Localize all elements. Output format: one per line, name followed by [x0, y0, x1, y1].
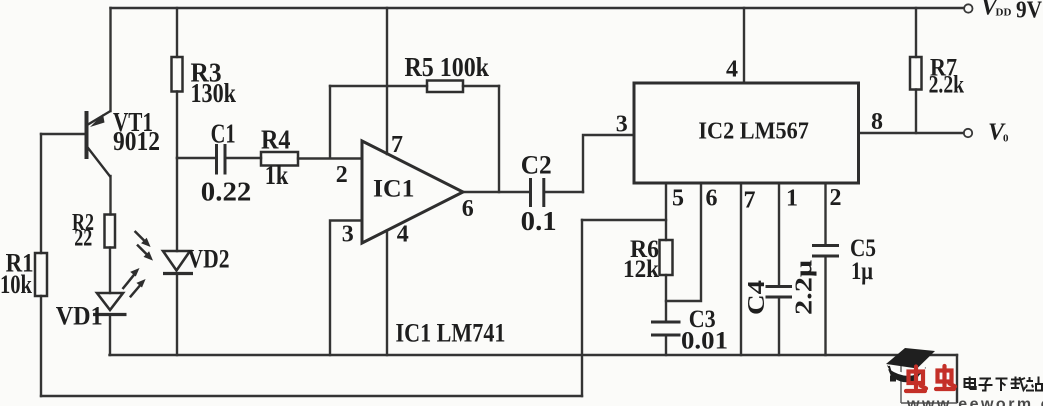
- svg-text:IC1 LM741: IC1 LM741: [396, 319, 506, 348]
- IC2 LM567 box: [634, 83, 859, 183]
- svg-text:4: 4: [726, 57, 738, 83]
- wire: IC1 pin4 to ground rail: [386, 231, 388, 356]
- wire: C3 bottom to ground rail: [665, 335, 667, 355]
- wire: left riser down to outer return rail: [581, 220, 583, 396]
- wire: IC1 pin7 supply drop: [386, 8, 388, 154]
- svg-text:22: 22: [74, 226, 92, 252]
- resistor R2: [105, 215, 116, 248]
- wire: VD1 cathode to ground rail: [109, 315, 111, 356]
- svg-text:R4: R4: [261, 125, 291, 155]
- resistor R6: [660, 240, 673, 275]
- terminal circle V0: [964, 129, 972, 137]
- svg-text:1k: 1k: [265, 160, 289, 190]
- wire: IC2 pin7 to ground rail: [740, 183, 742, 355]
- svg-text:R5 100k: R5 100k: [405, 52, 490, 82]
- transistor VT1: [87, 111, 111, 177]
- svg-text:0.22: 0.22: [201, 177, 252, 207]
- svg-text:3: 3: [342, 222, 354, 248]
- wire: node to VD2 anode: [176, 158, 178, 251]
- svg-text:130k: 130k: [191, 78, 237, 108]
- watermark red chong-chong characters: [906, 366, 955, 391]
- wire: R4 to IC1 pin2: [298, 157, 362, 159]
- wire: R6 bottom to C3: [665, 275, 667, 322]
- wire: R3 bottom to C1/VD2 node: [176, 92, 178, 159]
- svg-text:0.1: 0.1: [521, 206, 557, 236]
- VD2 incoming light arrows: [135, 231, 153, 261]
- svg-text:7: 7: [744, 188, 756, 214]
- svg-text:2.2k: 2.2k: [929, 72, 965, 99]
- wire: C4 bottom to ground rail: [778, 297, 780, 355]
- wire: IC2 pin1 stub to C4: [778, 183, 780, 287]
- resistor R3: [172, 57, 183, 92]
- svg-text:12k: 12k: [623, 256, 659, 283]
- node V0 label: [988, 120, 1009, 146]
- svg-text:C4: C4: [744, 280, 770, 315]
- svg-text:8: 8: [871, 109, 883, 135]
- wire: outer bottom return rail: [41, 395, 582, 397]
- wire: C1 right plate to R4: [227, 157, 262, 159]
- watermark logo box: [901, 358, 957, 403]
- wire: R5 left vertical to pin2 node: [329, 86, 331, 158]
- svg-text:6: 6: [462, 196, 474, 222]
- svg-text:DD: DD: [996, 7, 1012, 19]
- wire: R5 right horizontal: [463, 85, 499, 87]
- wire: top VDD rail: [111, 7, 964, 9]
- svg-text:C2: C2: [521, 151, 552, 180]
- wire: IC2 pin6 stub down and left to R6/C3 node: [666, 183, 701, 301]
- VD1 emission arrows: [123, 268, 146, 297]
- wire: left drop from rail to VT1 emitter: [109, 8, 111, 111]
- svg-text:VD1: VD1: [56, 302, 103, 331]
- wire: IC2 pin2 stub to C5: [824, 183, 826, 246]
- svg-text:6: 6: [706, 186, 718, 212]
- wire: R7 top from rail: [915, 8, 917, 57]
- wire: R3 branch drop from rail: [176, 8, 178, 57]
- capacitor C1: [217, 144, 226, 175]
- wire: R1 top to base node: [40, 134, 42, 253]
- capacitor C4: [766, 287, 793, 298]
- wire: VT1 base wire: [41, 133, 85, 135]
- svg-text:IC1: IC1: [373, 176, 415, 203]
- watermark site name characters: [965, 377, 1043, 392]
- diode VD1 (LED): [93, 293, 127, 315]
- svg-text:5: 5: [672, 186, 684, 212]
- wire: IC2 pin4 supply drop: [743, 8, 745, 83]
- wire: node to C1 left plate: [177, 157, 215, 159]
- wire: IC2 pin8 output wire: [859, 132, 964, 134]
- svg-text:2.2μ: 2.2μ: [792, 260, 818, 315]
- terminal circle VDD: [964, 4, 972, 12]
- resistor R7: [910, 57, 922, 90]
- resistor R4: [261, 152, 298, 166]
- wire: R5 right vertical to IC1 output: [498, 86, 500, 192]
- svg-text:0.01: 0.01: [681, 328, 728, 355]
- capacitor C5: [812, 246, 839, 257]
- svg-text:9V: 9V: [1016, 0, 1043, 24]
- wire: R1 bottom to outer rail: [40, 296, 42, 396]
- wire: IC1 pin3 stub: [330, 221, 362, 356]
- op-amp U1 IC1 triangle: [362, 141, 463, 243]
- wire: R2 to VD1 anode: [109, 248, 111, 294]
- resistor R5: [427, 81, 463, 93]
- svg-text:1μ: 1μ: [851, 258, 873, 285]
- wire: IC2 pin5 stub down through R6 node: [665, 183, 667, 240]
- svg-text:C1: C1: [211, 119, 236, 149]
- wire: IC1 output pin6 to C2: [463, 191, 529, 193]
- wire: riser up to IC2 pin3 level: [583, 135, 634, 192]
- watermark graduation cap: [886, 348, 935, 382]
- wire: VT1 collector down to R2: [109, 176, 111, 215]
- svg-text:10k: 10k: [0, 270, 32, 299]
- svg-text:1: 1: [786, 186, 798, 212]
- svg-text:3: 3: [616, 112, 628, 138]
- diode VD2 (photodiode): [163, 251, 193, 274]
- svg-text:www.eeworm.com: www.eeworm.com: [906, 396, 1043, 406]
- svg-text:4: 4: [397, 222, 409, 248]
- svg-text:2: 2: [336, 162, 348, 188]
- svg-text:2: 2: [830, 185, 842, 211]
- wire: R7 bottom to output wire: [915, 90, 917, 134]
- resistor R1: [35, 253, 47, 296]
- capacitor C3: [651, 322, 681, 335]
- wire: C5 bottom to ground rail: [824, 256, 826, 355]
- svg-text:0: 0: [1003, 133, 1009, 145]
- svg-text:IC2 LM567: IC2 LM567: [698, 119, 809, 145]
- capacitor C2: [531, 178, 544, 207]
- wire: VD2 cathode to ground rail: [176, 274, 178, 356]
- wire: ground rail right end drop: [956, 355, 958, 402]
- node VDD 9V label: [981, 0, 1043, 24]
- svg-text:9012: 9012: [113, 126, 160, 156]
- wire: R5 left horizontal: [330, 85, 427, 87]
- wire: IC2 pin5 horizontal to left riser: [582, 219, 666, 221]
- svg-text:VD2: VD2: [188, 245, 230, 274]
- wire: C2 to riser: [545, 191, 583, 193]
- wire: inner ground rail: [110, 354, 958, 356]
- svg-text:7: 7: [391, 132, 403, 158]
